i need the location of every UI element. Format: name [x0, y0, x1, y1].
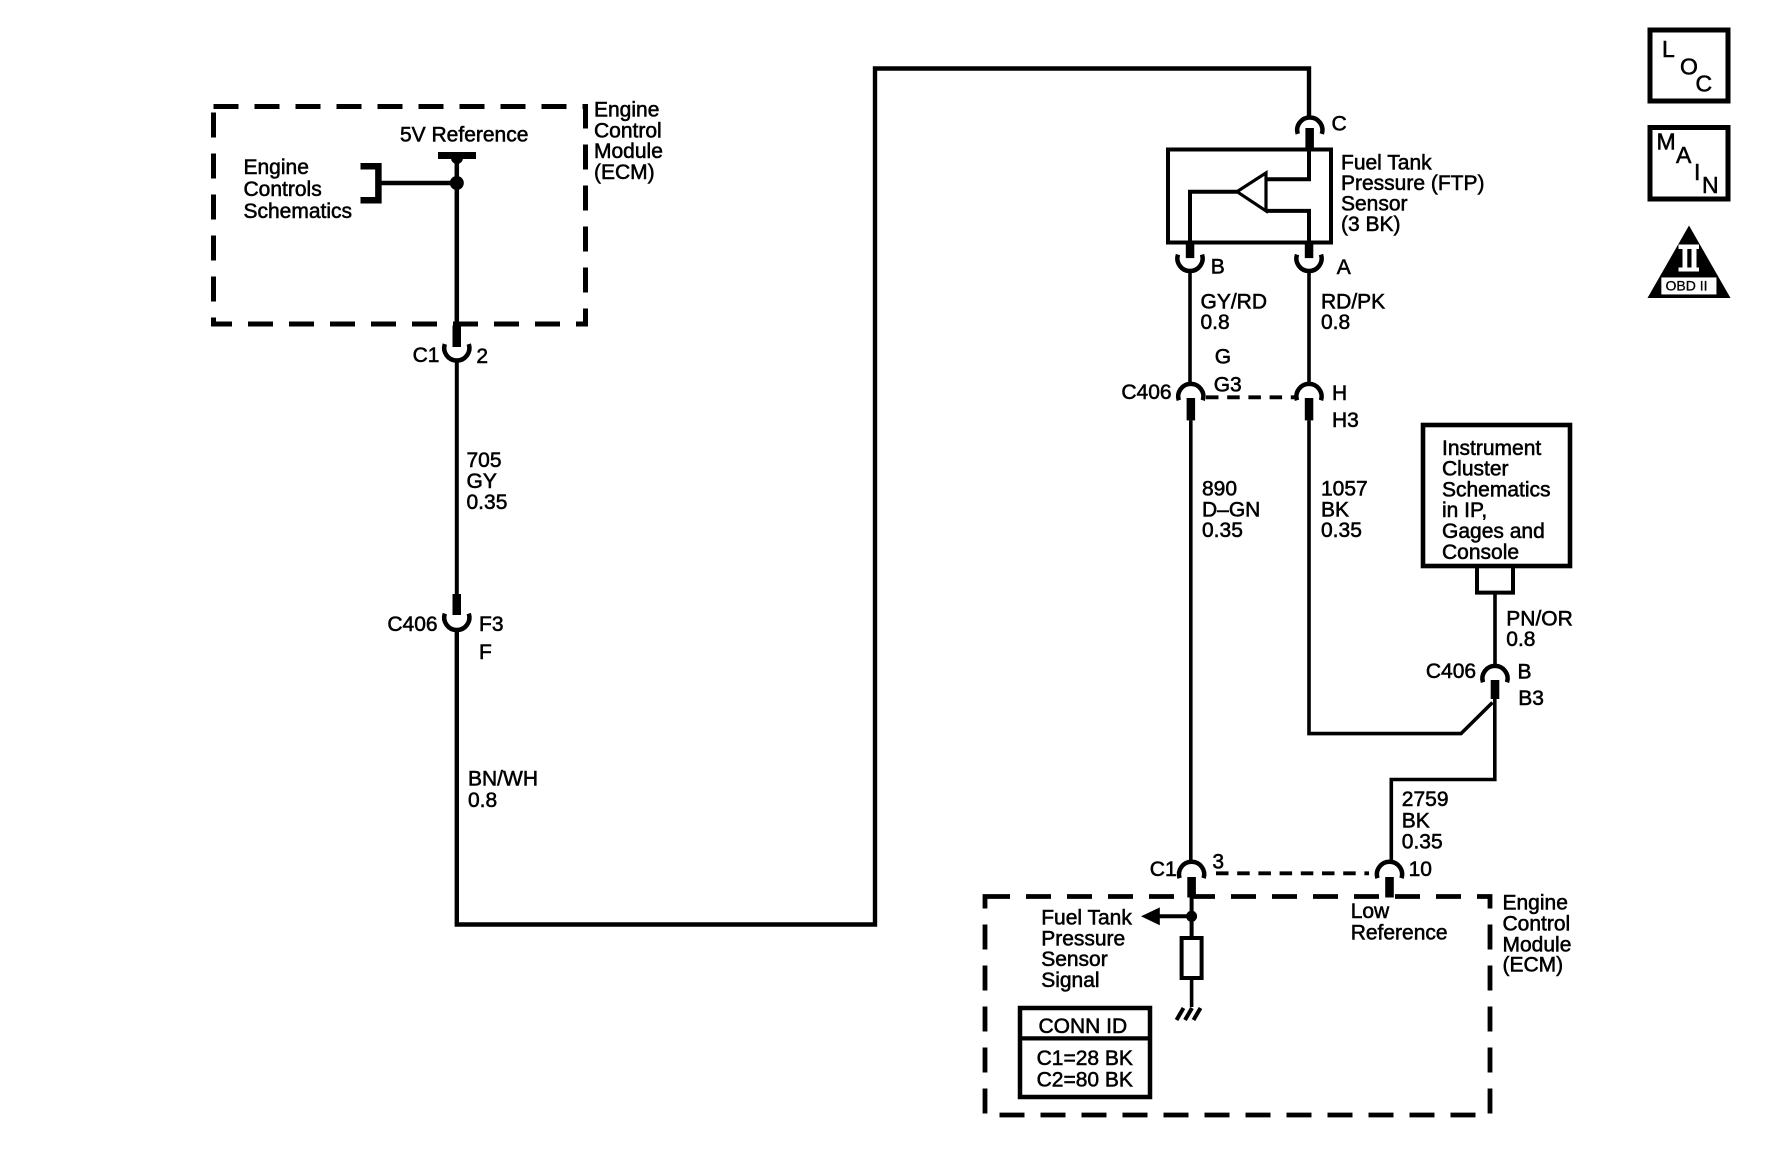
svg-text:H3: H3 [1332, 409, 1359, 432]
svg-text:Cluster: Cluster [1442, 458, 1509, 481]
svg-text:PN/OR: PN/OR [1506, 607, 1573, 630]
svg-text:Engine: Engine [244, 156, 309, 179]
OBD II pillar bottom bar [1679, 268, 1700, 272]
op-amp: sensor element triangle [1237, 173, 1266, 211]
wire: branch to Engine Controls Schematics [381, 181, 457, 186]
connector C1 pin 3 stub [1187, 877, 1196, 898]
svg-text:0.35: 0.35 [1202, 519, 1243, 542]
wire: C406 connector dashed link G-H [1206, 395, 1295, 399]
node: 5V reference terminal dot [451, 152, 463, 164]
svg-text:H: H [1332, 382, 1347, 405]
OBD II pillar top bar [1679, 245, 1700, 250]
svg-text:Gages and: Gages and [1442, 520, 1545, 543]
Instrument Cluster box [1423, 425, 1570, 566]
svg-text:Control: Control [594, 119, 662, 142]
svg-text:B3: B3 [1518, 687, 1544, 710]
svg-text:Engine: Engine [594, 99, 659, 122]
CONN ID table box [1020, 1008, 1150, 1097]
svg-text:(ECM): (ECM) [1503, 954, 1564, 977]
wire: 5V reference bus T-bar [438, 152, 476, 159]
OBD II pillar left column [1683, 249, 1688, 268]
wire 1057 BK 0.35 [1309, 420, 1493, 733]
connector C406 pin F3 arc [444, 614, 469, 630]
svg-text:BK: BK [1321, 498, 1349, 521]
svg-text:Fuel Tank: Fuel Tank [1041, 907, 1132, 930]
bracket: instrument cluster output [1477, 566, 1513, 593]
svg-text:Module: Module [594, 140, 663, 163]
wire: C1 connector dashed link 3-10 [1216, 871, 1369, 875]
node: FTP signal junction dot [1186, 911, 1197, 922]
svg-text:Console: Console [1442, 541, 1519, 564]
svg-text:F: F [479, 641, 492, 664]
svg-text:3: 3 [1212, 850, 1224, 873]
svg-text:5V Reference: 5V Reference [400, 123, 528, 146]
svg-text:(3 BK): (3 BK) [1341, 213, 1401, 236]
svg-text:0.8: 0.8 [468, 789, 497, 812]
svg-text:G3: G3 [1214, 374, 1242, 397]
bracket: Engine Controls Schematics off-page [361, 166, 379, 200]
svg-text:Controls: Controls [244, 178, 322, 201]
wire: sensor internal output to pin B [1190, 192, 1237, 241]
FTP sensor box [1168, 150, 1331, 243]
wire 705 GY 0.35 [455, 361, 459, 597]
wire: FTP signal inside ECM [1190, 898, 1194, 939]
svg-text:C: C [1696, 71, 1713, 97]
wire: sensor internal to pin A [1266, 211, 1309, 241]
wire BN/WH 0.8 loop to FTP sensor pin C [457, 69, 1309, 925]
connector C406 pin H arc [1296, 384, 1321, 400]
wire RD/PK 0.8 [1307, 271, 1311, 384]
connector C1 pin 2 stub [453, 326, 462, 348]
svg-text:C2=80 BK: C2=80 BK [1037, 1069, 1133, 1092]
svg-text:C406: C406 [1426, 660, 1476, 683]
svg-text:0.35: 0.35 [467, 491, 508, 514]
svg-text:BN/WH: BN/WH [468, 767, 538, 790]
connector C406 pin B arc [1482, 666, 1507, 682]
ECM module dashed box (top left) [214, 107, 586, 325]
svg-text:0.8: 0.8 [1201, 311, 1230, 334]
svg-text:D–GN: D–GN [1202, 498, 1260, 521]
svg-text:0.35: 0.35 [1321, 519, 1362, 542]
connector C1 pin 10 stub [1385, 877, 1394, 898]
svg-text:Reference: Reference [1351, 921, 1448, 944]
svg-text:C: C [1332, 113, 1347, 136]
connector C406 pin H stub [1305, 398, 1314, 420]
wire PN/OR 0.8 [1493, 593, 1497, 667]
connector C406 pin G stub [1187, 398, 1196, 420]
svg-text:Schematics: Schematics [244, 200, 353, 223]
svg-text:Pressure: Pressure [1041, 927, 1125, 950]
connector A stub [1305, 243, 1314, 259]
svg-text:Sensor: Sensor [1041, 948, 1108, 971]
svg-text:C1: C1 [413, 344, 440, 367]
svg-text:Signal: Signal [1041, 969, 1099, 992]
LOC symbol box [1650, 30, 1728, 101]
connector C1 pin 10 arc [1377, 862, 1402, 878]
svg-text:0.8: 0.8 [1321, 311, 1350, 334]
svg-text:A: A [1337, 256, 1351, 279]
svg-text:2759: 2759 [1402, 788, 1449, 811]
wire: sensor internal from pin C [1266, 151, 1309, 179]
svg-text:Sensor: Sensor [1341, 193, 1408, 216]
ECM module dashed box (bottom) [985, 897, 1490, 1116]
connector A arc [1296, 255, 1321, 271]
wire: vertical 5V reference inside ECM [455, 157, 460, 327]
svg-text:RD/PK: RD/PK [1321, 290, 1385, 313]
svg-text:N: N [1702, 172, 1719, 198]
arrowhead: Fuel Tank Pressure Sensor Signal [1141, 907, 1160, 925]
svg-text:A: A [1676, 142, 1692, 168]
svg-text:B: B [1211, 256, 1225, 279]
svg-text:Low: Low [1351, 900, 1390, 923]
OBD II symbol triangle [1648, 226, 1731, 299]
node: junction dot to Engine Controls Schematics [450, 176, 464, 190]
OBD II pillar right column [1692, 249, 1697, 268]
OBD II label plate [1661, 277, 1717, 295]
ground symbol [1177, 1008, 1201, 1020]
svg-text:G: G [1215, 346, 1231, 369]
connector C stub [1305, 128, 1314, 150]
connector C406 pin B stub [1491, 680, 1500, 699]
wire 2759 BK 0.35 [1391, 699, 1495, 862]
connector C1 pin 2 arc [444, 344, 469, 360]
wire 890 D-GN 0.35 [1189, 420, 1193, 861]
svg-text:0.8: 0.8 [1506, 628, 1535, 651]
connector C arc (FTP sensor) [1297, 117, 1322, 133]
connector C406 pin F3 stub [453, 594, 462, 615]
wire: arrow lead Fuel Tank Pressure Sensor Signal [1159, 914, 1192, 918]
svg-text:Instrument: Instrument [1442, 437, 1541, 460]
connector C406 pin G arc [1178, 384, 1203, 400]
svg-text:2: 2 [476, 345, 488, 368]
svg-text:1057: 1057 [1321, 478, 1368, 501]
svg-text:Schematics: Schematics [1442, 478, 1551, 501]
svg-text:Fuel Tank: Fuel Tank [1341, 151, 1432, 174]
svg-text:0.35: 0.35 [1402, 831, 1443, 854]
svg-text:M: M [1657, 129, 1676, 155]
svg-text:L: L [1662, 36, 1675, 62]
connector B stub [1186, 243, 1195, 259]
CONN ID table header line [1020, 1036, 1150, 1040]
MAIN symbol box [1650, 128, 1728, 200]
svg-text:C1: C1 [1150, 858, 1177, 881]
wire: resistor to ground [1190, 978, 1194, 1007]
svg-text:I: I [1694, 159, 1700, 185]
svg-text:OBD II: OBD II [1666, 277, 1708, 293]
svg-text:CONN ID: CONN ID [1039, 1015, 1128, 1038]
svg-text:F3: F3 [479, 613, 504, 636]
resistor: ECM internal pull resistor [1182, 938, 1202, 978]
svg-text:Pressure (FTP): Pressure (FTP) [1341, 172, 1485, 195]
svg-text:890: 890 [1202, 478, 1237, 501]
svg-text:(ECM): (ECM) [594, 161, 655, 184]
svg-text:Control: Control [1503, 913, 1571, 936]
connector B arc [1177, 255, 1202, 271]
svg-text:GY/RD: GY/RD [1201, 290, 1268, 313]
svg-text:705: 705 [467, 449, 502, 472]
svg-text:GY: GY [467, 470, 497, 493]
svg-text:Engine: Engine [1503, 891, 1568, 914]
svg-text:C406: C406 [1121, 381, 1171, 404]
svg-text:in IP,: in IP, [1442, 499, 1487, 522]
svg-text:BK: BK [1402, 809, 1430, 832]
wire GY/RD 0.8 [1188, 271, 1192, 384]
svg-text:C406: C406 [387, 613, 437, 636]
connector C1 pin 3 arc [1179, 862, 1204, 878]
svg-text:C1=28 BK: C1=28 BK [1037, 1047, 1133, 1070]
svg-text:B: B [1518, 660, 1532, 683]
svg-text:10: 10 [1409, 858, 1432, 881]
